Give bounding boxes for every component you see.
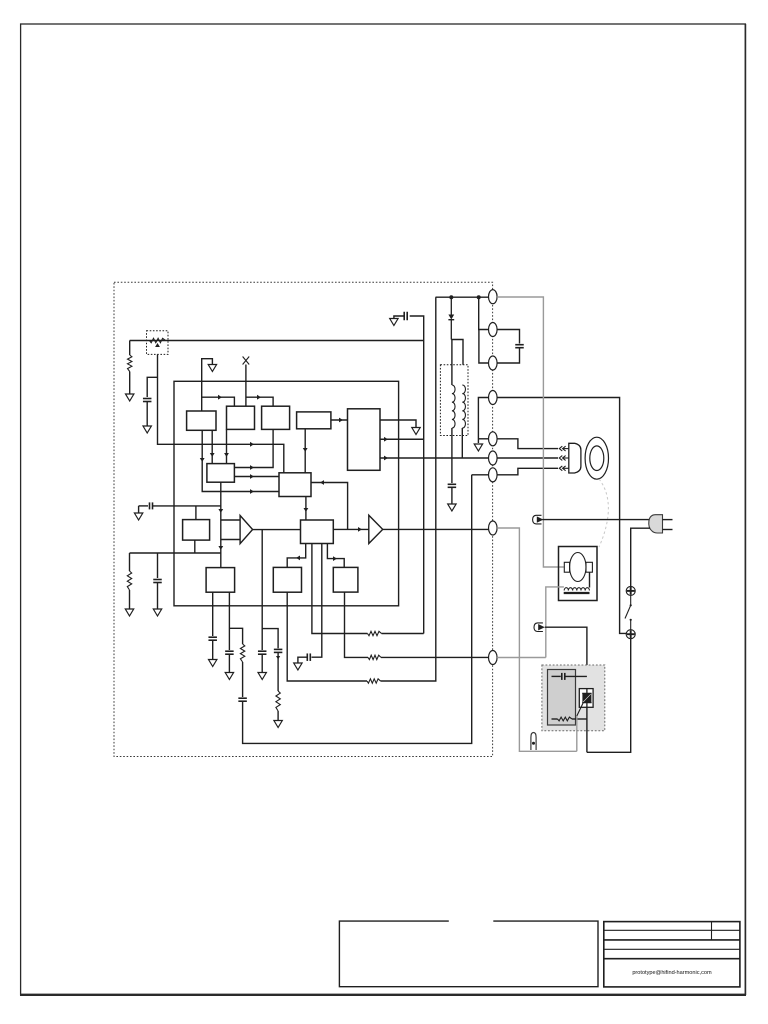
wire C7 to ground xyxy=(261,654,263,672)
quick-connect terminal T3 xyxy=(534,623,545,632)
wire U5 to U6 xyxy=(331,419,348,421)
arrow on U6 mid pin xyxy=(384,437,388,442)
ground G8 xyxy=(225,673,233,680)
arrow into U3 xyxy=(218,395,222,400)
junction to P2/P3 column xyxy=(477,295,481,299)
svg-text:prototype@hifind-harmonic,com: prototype@hifind-harmonic,com xyxy=(632,970,712,976)
wire A1 plus input xyxy=(221,519,240,521)
wire U7 to U8 xyxy=(234,476,279,478)
title block revision table xyxy=(604,922,740,987)
capacitor C4 xyxy=(208,637,217,640)
wire heater gray return xyxy=(546,587,564,658)
dashed transformer T1 box xyxy=(440,365,468,436)
block U8 xyxy=(279,473,311,497)
wire U2 pin to U7 xyxy=(211,430,213,463)
ground G5 xyxy=(125,609,133,616)
wire lower analog rail xyxy=(130,552,221,554)
wire A2 output to connector P8 xyxy=(383,528,489,530)
wire U9 top pin xyxy=(195,506,197,520)
quick-connect terminal T2 xyxy=(533,515,544,524)
wire R8 to connector P9 xyxy=(381,656,489,658)
wire R6 to C10 column xyxy=(382,633,424,635)
lamp bulb xyxy=(570,553,586,582)
wire gate gray drive xyxy=(576,716,578,751)
wire U10 snubber leg xyxy=(312,544,322,658)
switch terminal screw upper xyxy=(626,586,635,595)
ground G11 xyxy=(294,663,302,670)
heater element coil xyxy=(564,588,590,593)
wire VDD drop from R1 box xyxy=(158,354,284,472)
arrow into U7 right pin xyxy=(224,453,229,457)
wire P8 gray gate loop xyxy=(497,528,577,751)
wire U11 pin1 drop xyxy=(212,592,214,636)
capacitor C8 xyxy=(274,649,283,652)
wire lamp contact to heater xyxy=(589,572,591,587)
block U9 xyxy=(183,520,210,541)
wire R2 to ground xyxy=(129,372,131,395)
lamp housing box LP1 xyxy=(559,547,598,601)
wire C6 to feedback loop xyxy=(243,475,472,744)
wire C2 to U7 drop xyxy=(153,505,221,507)
wire rail drop to R3 xyxy=(129,553,131,571)
connector pin P8 xyxy=(489,521,498,535)
switch terminal screw lower xyxy=(626,630,635,639)
resistor R7 xyxy=(367,679,381,683)
wire branch node A to U3 xyxy=(202,397,235,406)
wire P9 to heater return xyxy=(497,657,546,659)
wire sense jog to C8 xyxy=(262,629,278,649)
resistor R2 xyxy=(128,355,132,372)
wire D1 to transformer legs xyxy=(451,340,463,365)
block U4 xyxy=(262,406,290,429)
wire branch crystal to U4 xyxy=(246,397,273,406)
ground G13 xyxy=(390,319,398,326)
arrow into U11 xyxy=(218,546,223,550)
wire U6 to connector P6 xyxy=(380,457,489,459)
resistor R8 xyxy=(368,655,381,659)
wire P2 P3 left ties xyxy=(479,297,489,329)
resistor R6 xyxy=(368,631,382,635)
capacitor C1 xyxy=(143,399,152,402)
connector pin P7 xyxy=(489,468,498,482)
wire U10 to A2 xyxy=(333,528,369,530)
arrow into U12 xyxy=(296,556,300,561)
wire C11 hang xyxy=(410,316,424,341)
lamp left contact xyxy=(564,562,569,572)
wire U5 to U8 xyxy=(304,429,306,473)
ground G1 xyxy=(126,394,134,401)
block U3 xyxy=(227,406,255,429)
block U7 xyxy=(207,464,235,483)
wire rail drop to C3 xyxy=(157,553,159,578)
wire U11 pin2 drop xyxy=(228,592,230,650)
wire R5 to ground xyxy=(277,711,279,721)
wire C13 to P3 xyxy=(497,348,519,363)
ground G10 xyxy=(274,721,282,728)
transformer T1 primary coil xyxy=(452,385,455,428)
arrow into A2 xyxy=(358,527,362,532)
triac module inner box xyxy=(548,670,576,726)
title block notes box xyxy=(339,921,598,987)
wire P6 to motor pin2 xyxy=(497,457,558,459)
wire U6 mid pin to C10 column xyxy=(380,438,424,440)
arrow into U7 left pin xyxy=(210,453,215,457)
connector pin P9 xyxy=(489,651,498,665)
ground G6 xyxy=(153,609,161,616)
capacitor C13 xyxy=(515,345,524,348)
motor M1 xyxy=(585,437,608,479)
ground G2 xyxy=(143,426,151,433)
wire terminal T3 to triac anode xyxy=(545,627,587,688)
diode D1 xyxy=(448,297,454,339)
block U5 xyxy=(297,412,331,429)
wire crystal to U3 xyxy=(245,365,247,407)
connector pin P4 xyxy=(489,391,498,405)
IC internal-block boundary box U1 xyxy=(174,381,399,606)
wire plug neutral to switch xyxy=(631,528,650,586)
wire triac gate xyxy=(577,703,583,716)
wire P2 to C13 xyxy=(497,330,519,344)
block U10 xyxy=(301,520,334,544)
wire P4 ground branch xyxy=(478,398,488,444)
wire U13 output through R8 xyxy=(345,592,369,657)
arrow on U7-U4 wire xyxy=(250,465,254,470)
triac module outer dashed box xyxy=(542,665,605,731)
wire R7 to supply column xyxy=(381,297,436,681)
arrow on U2 drop wire xyxy=(200,458,205,462)
ground G12 xyxy=(412,428,420,435)
capacitor C12 xyxy=(448,484,457,487)
wire C5 to ground xyxy=(228,654,230,672)
resistor R1 xyxy=(150,338,166,342)
wire C2 ground drop xyxy=(138,506,140,513)
wire snubber cap link xyxy=(552,675,561,677)
wire terminal to plug xyxy=(543,519,651,521)
wire triac to return bus xyxy=(586,707,588,752)
wire U11 jog to R4 xyxy=(229,628,242,644)
op-amp A2 xyxy=(369,515,383,543)
wire U12 output through R7 xyxy=(287,592,367,681)
wire C14 to triac column xyxy=(565,675,587,677)
wire P3 tie xyxy=(479,330,489,364)
wire switch to triac return xyxy=(587,639,631,752)
motor connector pin chevrons xyxy=(559,446,569,471)
wire node A inverted-U xyxy=(202,359,213,412)
arrow on U7-U8 wire xyxy=(250,474,254,479)
connector pin P6 xyxy=(489,451,498,465)
wire U9 bottom pin xyxy=(194,540,196,553)
capacitor C5 xyxy=(225,651,234,654)
wire P7 feedback drop xyxy=(472,474,489,476)
wire main top rail xyxy=(130,340,424,342)
wire C3 to ground xyxy=(157,583,159,610)
ground G4 xyxy=(134,513,142,520)
block U12 xyxy=(273,567,301,592)
ground G15 xyxy=(474,444,482,451)
dashed box around resistor R1 xyxy=(147,331,169,355)
wire A1 output sense drop xyxy=(261,530,263,650)
wire U8 to U10 xyxy=(305,497,307,521)
arrow on U7 bottom wire xyxy=(218,509,223,513)
wire R3 to ground xyxy=(129,590,131,609)
wire top supply rail xyxy=(436,296,489,298)
capacitor C11 xyxy=(404,312,407,321)
arrow into U10 xyxy=(304,508,309,512)
ground G9 xyxy=(258,673,266,680)
block U6 (driver IC) xyxy=(348,409,381,471)
wire C12 to ground xyxy=(451,487,453,504)
arrow inside R1 box xyxy=(155,343,160,347)
connector pin P1 xyxy=(489,290,498,304)
arrow on C8 leg xyxy=(276,656,280,660)
lamp right contact xyxy=(586,562,592,572)
triac Q1 xyxy=(579,689,593,708)
wire C11 to ground xyxy=(394,316,404,319)
wire C4 to ground xyxy=(212,640,214,659)
block U2 xyxy=(187,411,216,430)
capacitor C3 xyxy=(153,580,162,583)
motor connector shell J1 xyxy=(569,443,581,473)
wire U10 to U13 jog xyxy=(327,544,344,568)
wire R4 to C6 xyxy=(242,662,244,697)
ground G7 xyxy=(209,660,217,667)
capacitor C14 xyxy=(562,673,565,680)
resistor R9 xyxy=(558,717,573,721)
block U13 xyxy=(333,567,358,592)
resistor R5 xyxy=(276,691,280,711)
block U11 xyxy=(206,568,235,593)
wire C1 to ground xyxy=(146,402,148,427)
capacitor C7 xyxy=(258,651,267,654)
wire P1 gray live feed xyxy=(497,297,564,567)
wire R9 to triac column xyxy=(572,718,587,720)
arrow into U6 xyxy=(339,418,343,423)
wire A1 minus input xyxy=(221,539,240,541)
connector pin P5 xyxy=(489,432,498,446)
wire RC low-pass tap xyxy=(139,505,148,507)
wire P5 ground branch xyxy=(478,438,488,440)
wire P4 to switch column xyxy=(497,398,626,634)
wire U8 to A2 node xyxy=(311,483,348,530)
arrow on U8 output wire xyxy=(320,480,324,485)
wire U7 to U4 feedback xyxy=(234,429,273,467)
connector pin P3 xyxy=(489,356,498,370)
arrow into U8 lower pin xyxy=(250,489,254,494)
mains plug PL1 xyxy=(649,515,673,533)
thermal fuse F1 xyxy=(531,733,536,751)
wire U10 feedback through R6 xyxy=(312,544,368,634)
resistor R3 xyxy=(127,571,131,590)
wire C10 column xyxy=(423,341,425,634)
arrow into U4 xyxy=(257,395,261,400)
wire T1 left leg lower xyxy=(451,428,453,483)
ground G14 xyxy=(448,504,456,511)
dashed main-board enclosure xyxy=(114,282,493,756)
wire transformer left leg xyxy=(451,340,453,386)
crystal Y1 X-mark xyxy=(243,357,250,365)
wire T1 right leg lower xyxy=(461,428,463,458)
wire C1 tap xyxy=(147,377,157,397)
op-amp A1 xyxy=(240,516,253,544)
arrow into U13 xyxy=(333,556,337,561)
ground arrow G3 xyxy=(208,365,216,372)
wire U6 to ground stub xyxy=(380,420,416,428)
wire C8 to R5 xyxy=(277,652,279,691)
capacitor C2 xyxy=(150,502,153,509)
wire A1 output to U10 xyxy=(253,529,301,531)
connector pin P2 xyxy=(489,323,498,337)
wire U7 bottom chain xyxy=(220,482,222,567)
wire U10 to U12 jog xyxy=(287,544,306,568)
resistor R4 xyxy=(240,644,244,662)
capacitor C6 xyxy=(238,698,247,701)
wire U3 pin to U7 xyxy=(226,429,228,463)
arrow on bus wire xyxy=(250,442,254,447)
junction on supply rail xyxy=(449,295,453,299)
wire left drop to R2 xyxy=(129,341,131,356)
transformer T1 secondary coil xyxy=(462,385,465,428)
arrow on U6 output xyxy=(384,456,388,461)
dashed mechanical link motor to lamp xyxy=(599,479,608,547)
wire C9 to ground xyxy=(298,657,307,663)
wire P5 to motor pin1 xyxy=(497,439,558,449)
wire snubber resistor link xyxy=(552,718,558,720)
switch blade S1 xyxy=(625,596,632,630)
wire P7 to motor pin3 xyxy=(497,468,558,475)
arrow on U5-U8 wire xyxy=(303,448,308,452)
wire U2 pin down to U8 feed xyxy=(202,430,279,491)
capacitor C9 xyxy=(307,653,310,661)
